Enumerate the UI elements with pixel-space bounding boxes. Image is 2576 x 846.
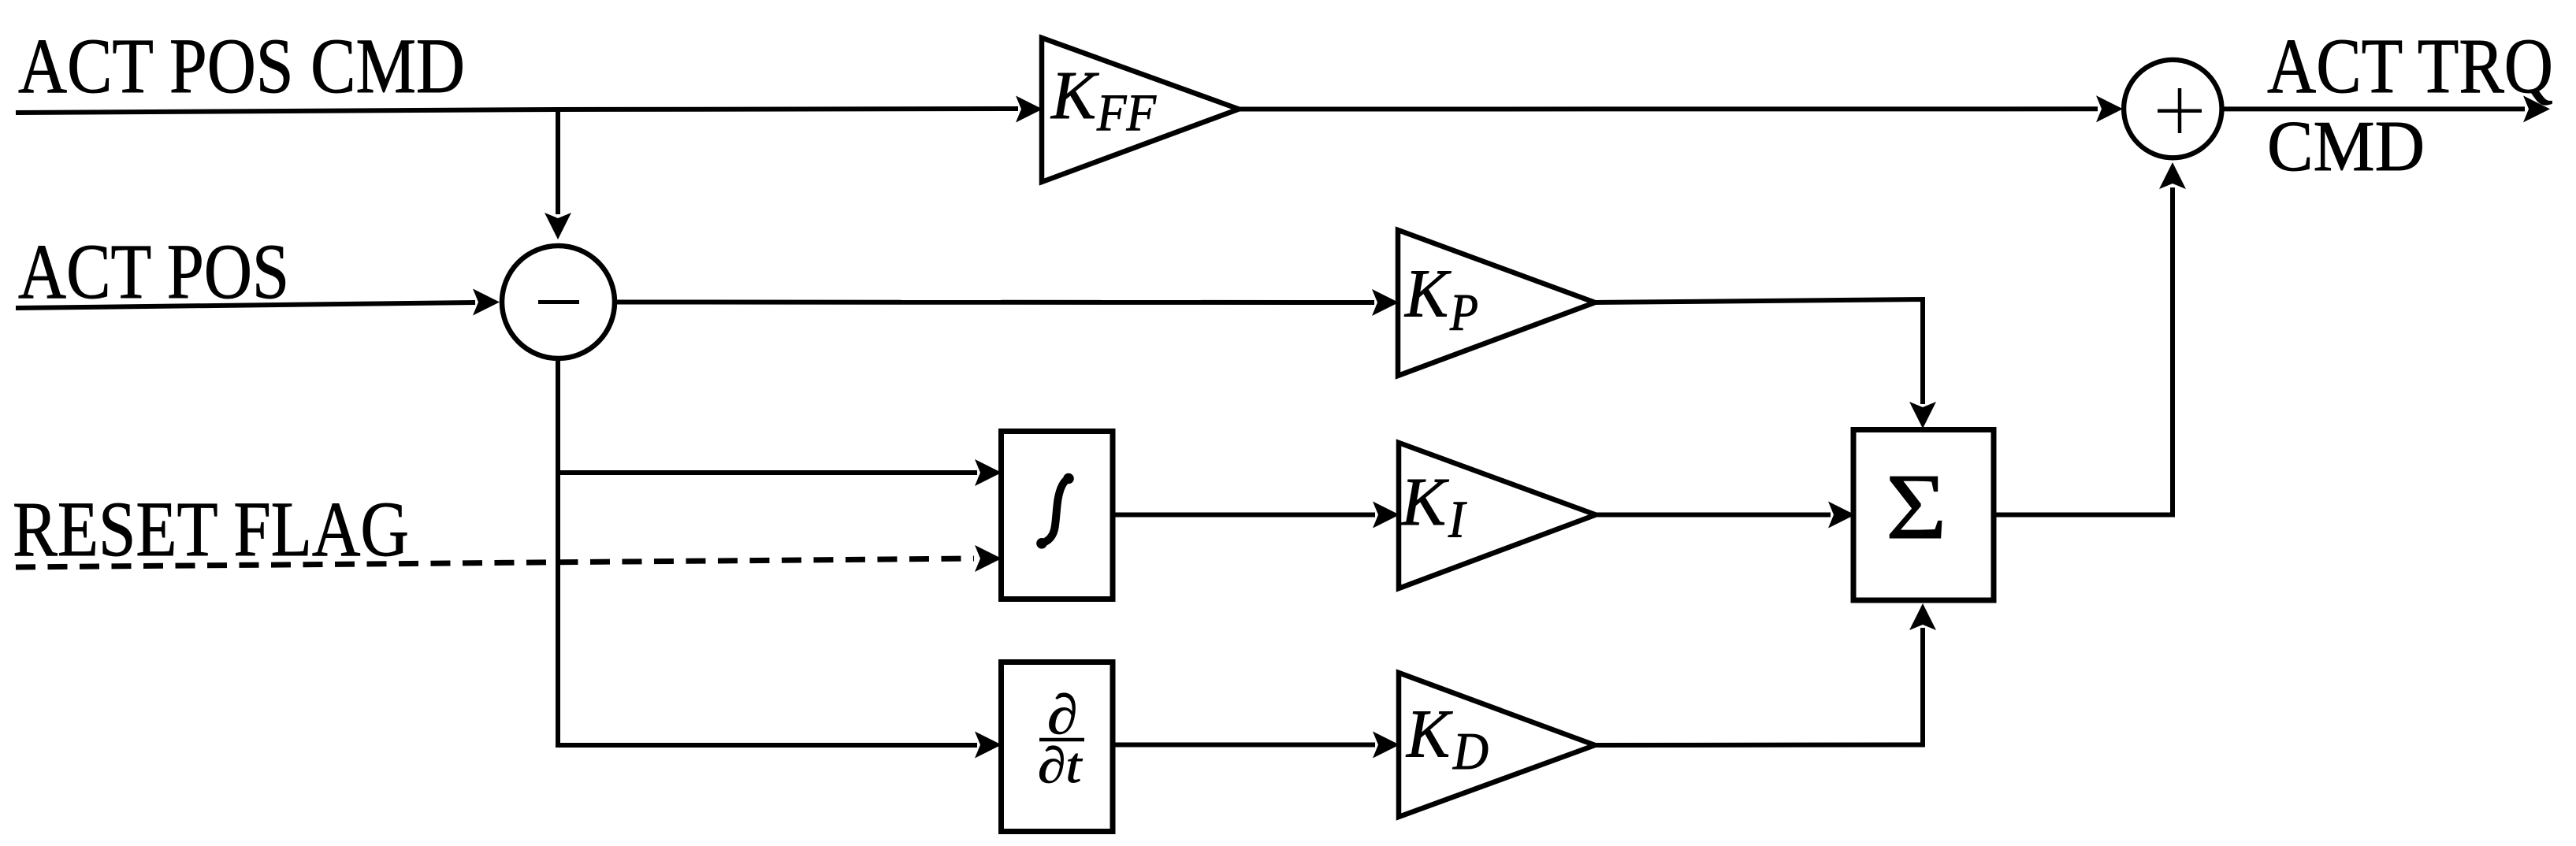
wire differentiator to KD: [1113, 732, 1400, 759]
summer U3 sigma box: [1853, 430, 1994, 601]
svg-text:ACT POS CMD: ACT POS CMD: [18, 22, 465, 109]
svg-text:CMD: CMD: [2267, 106, 2425, 186]
summing junction S1 subtractor: [502, 246, 615, 358]
svg-text:FF: FF: [1096, 83, 1157, 142]
gain KI integral triangle: [1399, 443, 1596, 588]
svg-text:∂t: ∂t: [1038, 737, 1084, 794]
arrow into differentiator: [975, 732, 1002, 759]
svg-text:K: K: [1400, 463, 1449, 540]
svg-text:K: K: [1403, 255, 1452, 332]
integrator U1: [1002, 432, 1113, 599]
svg-text:K: K: [1050, 57, 1099, 133]
summing junction S2 adder: [2124, 60, 2221, 158]
wire KP to summer sigma: [1595, 299, 1936, 429]
wire error signal down branch and to differentiator: [558, 356, 977, 745]
svg-text:P: P: [1449, 283, 1478, 341]
wire KI to summer sigma: [1596, 502, 1855, 529]
svg-text:RESET FLAG: RESET FLAG: [13, 485, 409, 573]
svg-text:K: K: [1405, 696, 1453, 772]
wire branch from ACT POS CMD down to subtractor: [545, 109, 571, 239]
wire ACT POS input to subtractor: [16, 289, 500, 316]
differentiator U2: [1002, 662, 1113, 832]
wire KD to summer sigma: [1595, 603, 1936, 745]
svg-text:ACT POS: ACT POS: [18, 228, 289, 315]
svg-text:Σ: Σ: [1886, 455, 1947, 559]
gain KP proportional triangle: [1398, 230, 1595, 376]
svg-text:ACT TRQ: ACT TRQ: [2267, 22, 2553, 109]
wire error signal subtractor to KP: [615, 289, 1399, 316]
wire ACT POS CMD input to KFF: [16, 96, 1043, 123]
gain KD derivative triangle: [1399, 673, 1595, 817]
svg-text:D: D: [1452, 722, 1489, 781]
wire integrator to KI: [1113, 502, 1400, 529]
wire error branch to integrator: [558, 459, 1002, 486]
wire summer sigma to adder: [1993, 162, 2186, 515]
wire RESET FLAG dashed line to integrator: [16, 545, 1002, 572]
gain KFF feed-forward triangle: [1042, 38, 1239, 182]
wire KFF to adder: [1237, 95, 2123, 122]
wire ACT TRQ CMD output: [2223, 95, 2550, 122]
svg-text:I: I: [1448, 491, 1466, 549]
